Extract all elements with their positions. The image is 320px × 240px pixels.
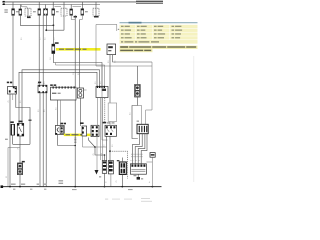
wire A31 box to rail bbox=[151, 162, 153, 187]
relay J2 dashed box bbox=[61, 8, 67, 16]
strip 2 wire label bbox=[66, 134, 71, 135]
switch E1 bbox=[17, 123, 23, 136]
switch K2 bbox=[55, 126, 64, 135]
wire F4b down bbox=[45, 15, 47, 30]
motor M2 label bbox=[22, 161, 25, 163]
fuse F2 bbox=[19, 9, 22, 15]
node rail junction 3 bbox=[74, 186, 76, 188]
svg-text:1.5: 1.5 bbox=[73, 73, 75, 76]
wire over strip1 b bbox=[79, 48, 81, 52]
wire rail to fuse F3 bbox=[38, 2, 40, 9]
wire M2 to rail bbox=[19, 175, 21, 187]
motor M2 bbox=[17, 163, 22, 175]
connector K2b label bbox=[38, 82, 41, 84]
under-rail ground id 1 bbox=[13, 189, 15, 190]
wire K2 pin a down bbox=[57, 135, 59, 146]
under-rail ground id 3 bbox=[44, 189, 46, 190]
ground text bbox=[141, 178, 143, 179]
wire jumper F5 to J2 bbox=[55, 6, 62, 8]
fuse F7 bbox=[81, 9, 84, 15]
ground lug G3 bbox=[137, 177, 140, 180]
svg-text:0.5: 0.5 bbox=[108, 61, 110, 64]
wire node B to J2 branch bbox=[46, 29, 64, 31]
wire rail to relay J3 bbox=[95, 2, 97, 8]
wire A32 pin1 down bbox=[109, 55, 111, 125]
wire P2 to rail bbox=[110, 174, 112, 187]
switch E1 label bbox=[18, 121, 22, 123]
wire T4 pin4 staircase bbox=[141, 134, 147, 164]
wire P3 up bbox=[121, 158, 123, 163]
wire F5 down to K flasher bbox=[52, 15, 54, 44]
wire rail to relay J2 bbox=[63, 2, 65, 8]
A31 label box bbox=[150, 153, 155, 158]
under-rail ground id 2 bbox=[30, 189, 32, 190]
wire F7 down bbox=[79, 20, 81, 89]
ground rail bbox=[1, 186, 162, 188]
connector A1b bbox=[105, 125, 117, 136]
fuse F3 value label bbox=[33, 11, 36, 12]
rail label 3 bbox=[37, 184, 39, 185]
svg-text:.75: .75 bbox=[93, 154, 95, 157]
strip 1 wire label bbox=[59, 49, 64, 50]
wire K1 pin stub bbox=[12, 94, 14, 100]
connector X1 label bbox=[80, 122, 84, 124]
big box J285 pin stub bbox=[116, 25, 118, 32]
ground lug G2 bbox=[95, 170, 99, 175]
node h147 junction bbox=[94, 146, 96, 148]
node B junction bbox=[45, 29, 47, 31]
wire E1 to loop bbox=[13, 143, 30, 145]
relay module A7 label bbox=[50, 84, 53, 86]
node rail junction 5 bbox=[152, 186, 154, 188]
relay J1 designator bbox=[27, 16, 31, 18]
big box J285 inner left edge bbox=[102, 66, 108, 140]
node K2 junction bbox=[74, 145, 76, 147]
svg-text:31: 31 bbox=[6, 176, 8, 178]
wire B2 down bbox=[79, 98, 81, 126]
node P1 top junction bbox=[104, 154, 106, 156]
sensor B2 stub bbox=[84, 89, 87, 91]
flasher relay K bbox=[52, 44, 55, 53]
fuse F5 value label bbox=[56, 11, 59, 12]
svg-text:0.5: 0.5 bbox=[20, 101, 22, 104]
svg-text:2: 2 bbox=[136, 160, 138, 161]
wire T4 pin2 staircase bbox=[135, 134, 142, 164]
control module A32 box bbox=[107, 44, 116, 55]
wire rail to fuse F4 bbox=[45, 5, 47, 9]
wire F6 down bbox=[74, 15, 76, 145]
fuse F1 bbox=[12, 9, 15, 15]
legend note paragraph line 2 bbox=[120, 49, 153, 52]
svg-text:.75: .75 bbox=[8, 101, 10, 104]
wire F6 to rail bbox=[74, 146, 76, 187]
wire X1 down bbox=[82, 136, 84, 147]
svg-text:0.5: 0.5 bbox=[44, 82, 46, 85]
white box D1 bbox=[108, 103, 116, 122]
svg-text:1.0: 1.0 bbox=[50, 58, 52, 61]
svg-text:5: 5 bbox=[139, 160, 141, 161]
relay J2 internal wire bbox=[63, 8, 65, 16]
wire X2 diagonal bbox=[89, 138, 105, 156]
svg-text:0.5: 0.5 bbox=[39, 38, 41, 41]
legend note paragraph bbox=[120, 46, 198, 49]
legend cell texts bbox=[121, 26, 182, 39]
wire P1 top bbox=[104, 155, 106, 161]
rail label 1 bbox=[11, 184, 16, 185]
wire A31 feed bbox=[146, 157, 152, 162]
wire M1 down bbox=[136, 97, 138, 106]
wire F2 to node A bbox=[20, 15, 53, 25]
svg-text:0.5: 0.5 bbox=[54, 38, 56, 41]
bus rail 15 bbox=[2, 4, 100, 6]
wire X2 pin down bbox=[96, 137, 98, 171]
highlighted wire strip 1 bbox=[56, 48, 101, 51]
fuse F1 value label bbox=[4, 9, 7, 10]
wire F7 jog bbox=[80, 15, 83, 19]
wire jumper to relay J1 bbox=[22, 5, 28, 9]
fuse F7 value label bbox=[85, 11, 88, 12]
connector P1 bbox=[102, 161, 106, 174]
label 15 bbox=[3, 3, 5, 5]
under-rail ground id 5 bbox=[128, 189, 133, 190]
svg-text:7: 7 bbox=[133, 160, 135, 161]
svg-text:0.5: 0.5 bbox=[78, 73, 80, 76]
A7 top pins bbox=[53, 86, 75, 88]
svg-text:0.5: 0.5 bbox=[38, 110, 40, 113]
right page border bbox=[193, 56, 195, 182]
junction label blob bbox=[29, 120, 32, 122]
svg-text:0.5: 0.5 bbox=[45, 38, 47, 41]
pump M1 bbox=[135, 85, 141, 98]
ground rail left terminal bbox=[1, 185, 4, 188]
fuse F2 value label bbox=[16, 11, 19, 12]
wire bundle h2 bbox=[22, 70, 100, 124]
svg-text:0.5: 0.5 bbox=[114, 61, 116, 64]
wire A1b pin2 to connector bbox=[109, 151, 111, 160]
connector P3 label bbox=[117, 160, 120, 161]
wire J285 to M1 bbox=[136, 66, 138, 85]
connector P2 bbox=[108, 161, 113, 174]
fuse F5 bbox=[52, 9, 55, 15]
connector K2b bbox=[38, 85, 47, 93]
fuse F6 designator bbox=[74, 16, 77, 18]
big box J285 left edge lower bbox=[96, 65, 152, 67]
label 30 bbox=[3, 1, 5, 3]
sensor B2 bbox=[77, 88, 83, 98]
relay J3 internal wire bbox=[95, 8, 97, 16]
svg-text:0.5: 0.5 bbox=[130, 113, 132, 116]
wire A1b pin2 down bbox=[109, 136, 111, 151]
wire A7 down pin b bbox=[60, 100, 62, 126]
shield dashed upper bbox=[104, 98, 106, 124]
wire F4a down bbox=[42, 15, 44, 85]
highlighted wire strip 2 bbox=[64, 134, 91, 137]
bus rail 30 right dark segment bbox=[136, 0, 163, 2]
wire C3 out a bbox=[97, 98, 99, 126]
wire M1 branch left down bbox=[132, 106, 138, 139]
wire jumper F6 to F7 bbox=[73, 6, 82, 8]
svg-text:0.5: 0.5 bbox=[103, 145, 105, 148]
connector K1 label bbox=[7, 82, 9, 84]
node A junction bbox=[53, 24, 55, 26]
wire rail to fuse F1 bbox=[12, 2, 14, 9]
wire rail to fuse F2 bbox=[19, 5, 21, 10]
node rail junction 2 bbox=[19, 186, 21, 188]
rail label 5 bbox=[59, 180, 64, 181]
multipin connector A31 bbox=[130, 164, 146, 174]
wire J2 down bbox=[63, 16, 65, 30]
svg-text:4: 4 bbox=[130, 160, 132, 161]
wire over strip2 bbox=[74, 133, 76, 136]
relay J3 dashed box bbox=[93, 8, 99, 16]
wire K down and right h3 bbox=[53, 53, 102, 87]
wire C2 pins down bbox=[39, 93, 41, 187]
svg-text:0.5: 0.5 bbox=[21, 38, 23, 41]
relay J1 internal wire bbox=[27, 8, 29, 16]
flasher relay K label bbox=[55, 42, 59, 44]
rail label 9 bbox=[134, 175, 137, 176]
wire F1 down bbox=[12, 15, 14, 86]
wire shield dashed bbox=[110, 151, 128, 178]
svg-text:0.5: 0.5 bbox=[112, 145, 114, 148]
wire P1 to rail bbox=[104, 173, 106, 186]
pin label bars A31 bbox=[131, 154, 142, 157]
node P1 rail junction bbox=[104, 186, 106, 188]
footer text right bbox=[141, 198, 150, 199]
fuse F6 bbox=[70, 9, 73, 15]
wire T4 pin1 staircase bbox=[132, 134, 139, 164]
control module A32 text bbox=[108, 46, 113, 48]
A7 internal text bbox=[52, 93, 56, 94]
svg-text:0.5: 0.5 bbox=[55, 108, 57, 111]
bus rail 30 bbox=[2, 1, 163, 3]
rail label 4 bbox=[44, 184, 46, 185]
rail label 2 bbox=[21, 184, 25, 185]
legend table background bbox=[120, 25, 198, 44]
wire h4 bbox=[56, 63, 105, 86]
svg-text:0.5: 0.5 bbox=[100, 82, 102, 85]
wire F6 jog bbox=[71, 15, 75, 19]
rail label 6 bbox=[99, 176, 101, 177]
legend table top bar bbox=[120, 22, 198, 23]
wire P3 down bbox=[121, 174, 123, 186]
bus rail 15 right segment bbox=[136, 2, 163, 4]
wire E1 pin down bbox=[19, 136, 21, 163]
legend grid lines bbox=[120, 25, 198, 40]
wire A7 down pin a bbox=[57, 100, 59, 126]
wire F3 down bbox=[38, 15, 40, 85]
fuse F22 bbox=[11, 124, 15, 135]
wire T4 pin3 staircase bbox=[138, 134, 145, 164]
connector T4 bbox=[137, 124, 148, 133]
wire K1 loop bbox=[16, 94, 30, 144]
wire F22 down bbox=[12, 135, 14, 144]
legend table top bar dark segment bbox=[129, 22, 142, 24]
wire left ground branch bbox=[8, 148, 20, 187]
footer text left bbox=[105, 199, 108, 200]
wire K1 pin down left bbox=[9, 94, 11, 187]
wire rail to fuse F5 bbox=[52, 2, 54, 9]
relay J3 designator bbox=[94, 16, 99, 18]
svg-text:.75: .75 bbox=[18, 148, 20, 151]
connector X2 bbox=[91, 125, 99, 136]
wire A31 down ground bbox=[137, 174, 139, 177]
svg-text:c14: c14 bbox=[101, 153, 103, 156]
connector P3 bbox=[119, 162, 126, 174]
wire label smudge 13 bbox=[5, 139, 8, 140]
connector X1 bbox=[82, 126, 87, 136]
switch K2 label bbox=[60, 123, 63, 125]
svg-text:0.5: 0.5 bbox=[95, 82, 97, 85]
wire T4 feed a bbox=[146, 62, 152, 125]
wire A1b pin1 down bbox=[106, 136, 108, 160]
svg-text:.75: .75 bbox=[116, 181, 118, 184]
fuse F22 label bbox=[10, 121, 13, 123]
relay module A7 bbox=[51, 87, 77, 100]
wire rail to fuse F6 bbox=[70, 5, 72, 10]
big box J285 outline top bbox=[96, 25, 117, 67]
wire over strip1 a bbox=[74, 48, 76, 52]
under-rail ground id 4 bbox=[72, 189, 77, 190]
connector K1 bbox=[8, 87, 17, 95]
wire rail to fuse F7 bbox=[81, 2, 83, 9]
wire C3 out b bbox=[100, 98, 102, 161]
svg-text:0.5: 0.5 bbox=[44, 110, 46, 113]
wire A32 pin2 to right bbox=[113, 55, 152, 62]
pin label 5 bbox=[118, 29, 119, 30]
wire C3 out c bbox=[102, 98, 104, 161]
connector X1 ticks bbox=[74, 138, 76, 143]
wire T4 feed b bbox=[137, 106, 141, 125]
wire K2 to F6 wire bbox=[58, 145, 76, 147]
fuse F3 bbox=[38, 9, 41, 15]
relay J1 dashed box bbox=[25, 8, 31, 16]
wire cross link h147 bbox=[83, 146, 107, 148]
legend footnote row bbox=[120, 40, 198, 43]
node shield junction bbox=[109, 150, 111, 152]
connector A1b label bbox=[103, 122, 107, 124]
node rail junction 4 bbox=[121, 186, 123, 188]
connector C3 bbox=[96, 87, 108, 98]
fuse F4 (double) bbox=[44, 9, 48, 15]
wire bundle h1 bbox=[19, 72, 97, 123]
wire T4 label bbox=[137, 121, 139, 122]
node rail junction 1 bbox=[9, 186, 11, 188]
